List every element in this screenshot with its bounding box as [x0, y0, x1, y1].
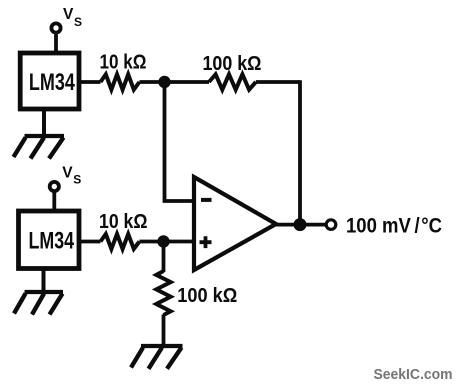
- terminal VS1 circle: [51, 23, 60, 32]
- svg-text:LM34: LM34: [29, 69, 75, 96]
- svg-text:LM34: LM34: [29, 228, 75, 255]
- op-amp A1 triangle: [194, 177, 276, 270]
- wire U1 output lead: [79, 80, 101, 84]
- sensor U1 LM34 box: [20, 53, 79, 109]
- svg-text:10 kΩ: 10 kΩ: [100, 51, 147, 73]
- wire U2 to ground stem: [42, 269, 46, 293]
- wire R4 to ground GND3: [162, 315, 166, 347]
- wire node A down to inverting input: [165, 82, 195, 201]
- svg-text:10 kΩ: 10 kΩ: [99, 211, 148, 233]
- ground GND3 slashes: [131, 348, 182, 369]
- sensor U2 LM34 box: [19, 211, 80, 269]
- wire VS1 to U1: [54, 34, 58, 53]
- resistor R3 10k zigzag: [101, 234, 140, 249]
- svg-text:SeekIC.com: SeekIC.com: [374, 367, 453, 383]
- svg-text:V: V: [62, 164, 73, 181]
- wire node B down to R4: [162, 242, 166, 273]
- ground GND1 bar: [25, 134, 65, 138]
- wire op-amp output: [276, 223, 326, 227]
- svg-text:100 kΩ: 100 kΩ: [203, 53, 262, 75]
- wire feedback vertical: [298, 80, 302, 224]
- resistor R1 10k zigzag: [101, 74, 140, 89]
- junction node C dot: [294, 218, 307, 231]
- ground GND3 bar: [141, 344, 183, 348]
- wire U1 to ground stem: [42, 109, 46, 136]
- wire R3 to plus input through node B: [139, 240, 194, 244]
- ground GND2 bar: [25, 290, 64, 294]
- wire U2 lead: [78, 240, 101, 244]
- wire VS2 to U2: [52, 192, 56, 211]
- wire R1 to R2 through node A: [139, 80, 209, 84]
- resistor R4 100k vertical zigzag: [156, 271, 170, 315]
- junction node A dot: [158, 76, 170, 88]
- svg-text:S: S: [73, 172, 81, 186]
- terminal output circle: [326, 220, 336, 230]
- svg-text:100 kΩ: 100 kΩ: [177, 284, 237, 307]
- ground GND2 slashes: [14, 294, 63, 315]
- ground GND1 slashes: [14, 138, 64, 159]
- terminal VS2 circle: [50, 182, 59, 191]
- svg-text:V: V: [63, 6, 74, 23]
- svg-text:100 mV / °C: 100 mV / °C: [346, 213, 442, 237]
- op-amp plus sign: [200, 236, 212, 248]
- svg-text:S: S: [74, 15, 82, 29]
- wire R2 to feedback corner: [256, 80, 300, 84]
- resistor R2 100k zigzag: [209, 74, 256, 89]
- junction node B dot: [157, 235, 169, 247]
- op-amp minus sign: [201, 198, 212, 202]
